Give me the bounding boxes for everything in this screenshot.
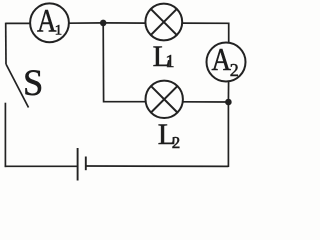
wire branch: top junction down to L2 level [103, 23, 146, 102]
svg-text:1: 1 [166, 51, 175, 71]
wire junction down to bottom-right corner [227, 102, 229, 167]
wire bottom right (battery to bottom-right corner) [86, 165, 228, 167]
junction node dot (top) [100, 20, 107, 27]
svg-text:A: A [212, 41, 232, 77]
ammeter A2 circle [207, 43, 246, 82]
svg-text:1: 1 [55, 23, 63, 39]
wire A2 to junction node (right) [227, 81, 229, 102]
wire left vertical lower (switch bottom contact to bottom-left corner) [4, 103, 6, 167]
battery long plate [77, 148, 79, 181]
ammeter A1 circle [30, 3, 69, 42]
wire L2 to right junction [183, 101, 229, 103]
lamp L2 cross [151, 86, 177, 112]
wire A1 to junction node [69, 22, 104, 24]
wire top-left: left edge corner to ammeter A1 [6, 22, 30, 24]
svg-text:2: 2 [172, 133, 181, 152]
wire junction to lamp L1 [103, 22, 145, 24]
wire L1 to top-right corner and down to ammeter A2 [182, 23, 229, 43]
junction node dot (right) [225, 99, 232, 106]
svg-text:S: S [23, 62, 43, 103]
wire left vertical upper (corner down to switch top contact) [5, 23, 7, 65]
battery short plate [85, 157, 87, 171]
switch S blade (open) [6, 65, 28, 108]
svg-text:2: 2 [230, 60, 239, 80]
lamp L1 cross [151, 9, 177, 35]
lamp L1 circle [145, 4, 182, 41]
lamp L2 circle [146, 81, 183, 118]
wire bottom left (corner to battery) [5, 165, 77, 167]
